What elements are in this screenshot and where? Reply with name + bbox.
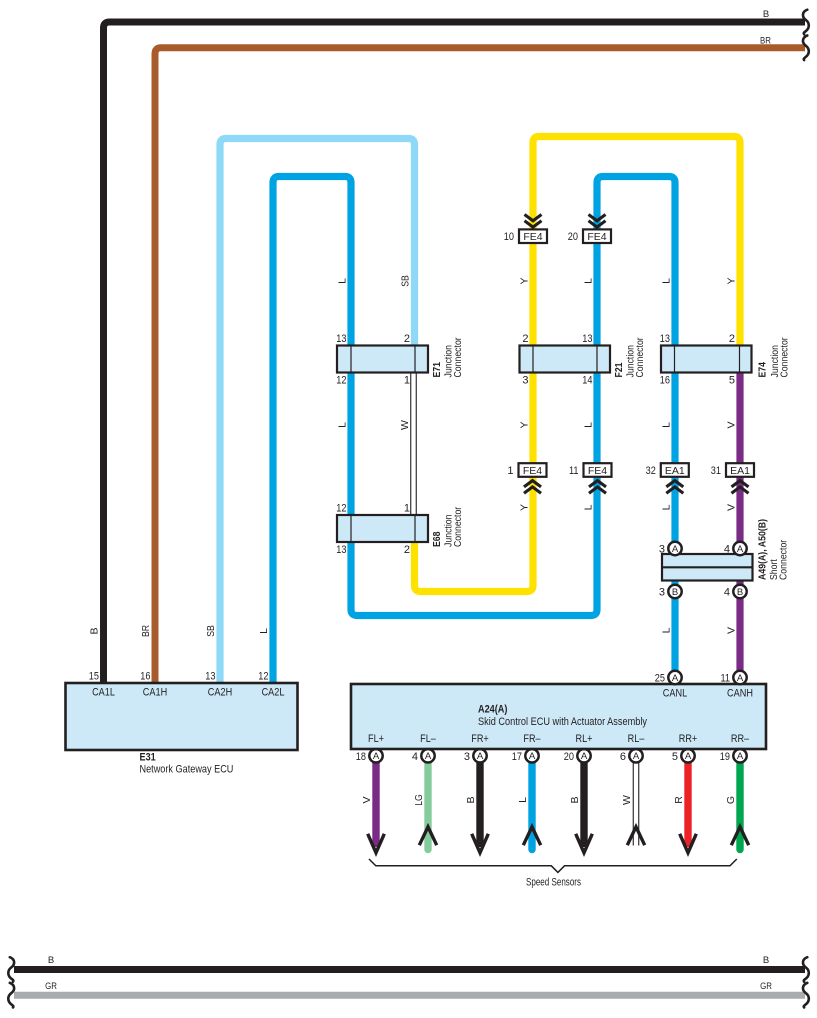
wire Y yellow: F21 pin 2 up, right, down to E74 pin 2 (533, 137, 740, 350)
connector EA1 pin 32 (661, 463, 689, 477)
svg-text:10: 10 (504, 231, 514, 243)
svg-text:2: 2 (404, 333, 410, 345)
svg-text:3: 3 (464, 751, 470, 763)
svg-text:L: L (583, 278, 595, 284)
wire L blue: E31 pin 12 up, right, down to E71 pin 13 (273, 177, 351, 684)
A24 pin 20 RL+ sensor wire B (564, 733, 593, 853)
svg-text:W: W (399, 420, 411, 430)
svg-text:A: A (633, 751, 640, 762)
svg-text:Y: Y (519, 504, 531, 511)
svg-text:CA2L: CA2L (262, 687, 285, 699)
svg-text:B: B (48, 955, 54, 966)
A24 pin 6 RL– sensor wire W (620, 733, 645, 846)
svg-text:16: 16 (660, 375, 670, 387)
break symbol on wire BR top right (803, 36, 809, 61)
svg-text:CANH: CANH (727, 688, 753, 700)
connector arrow into EA1 pin 32 (666, 481, 683, 494)
svg-text:A: A (737, 673, 744, 684)
connector arrow into FE4 pin 11 (589, 481, 606, 494)
svg-text:1: 1 (404, 503, 410, 515)
A24 pin 11 CANH circle (721, 671, 747, 685)
svg-text:W: W (621, 795, 633, 805)
svg-text:A: A (672, 544, 679, 555)
svg-text:12: 12 (258, 671, 268, 683)
svg-text:2: 2 (729, 333, 735, 345)
svg-text:14: 14 (582, 375, 592, 387)
svg-text:L: L (517, 797, 529, 803)
svg-text:31: 31 (711, 465, 721, 477)
A24 pin 19 RR– sensor wire G (720, 733, 750, 850)
svg-text:V: V (726, 627, 738, 634)
break symbol bottom rail GR left (8, 983, 14, 1008)
svg-text:LG: LG (413, 794, 425, 806)
svg-text:Speed Sensors: Speed Sensors (526, 877, 581, 889)
svg-text:Y: Y (726, 277, 738, 284)
svg-text:3: 3 (659, 544, 665, 556)
svg-text:32: 32 (646, 465, 656, 477)
wire B black: E31 pin 15 up and right to break (104, 22, 806, 683)
svg-text:L: L (337, 422, 349, 428)
svg-text:25: 25 (655, 673, 665, 685)
wire W white: E71 pin 1 down to E68 pin 1 (410, 372, 417, 516)
svg-text:Y: Y (519, 277, 531, 284)
connector FE4 pin 10 (519, 229, 547, 243)
svg-text:A: A (737, 751, 744, 762)
connector arrow into FE4 pin 20 (589, 215, 606, 228)
svg-text:E31: E31 (140, 752, 156, 764)
svg-text:B: B (737, 587, 743, 598)
A24 pin 17 FR– sensor wire L (512, 733, 542, 850)
svg-text:BR: BR (140, 625, 152, 637)
svg-text:A49(A), A50(B): A49(A), A50(B) (757, 519, 769, 580)
ECU A24(A) Skid Control ECU with Actuator Assembly (351, 684, 766, 749)
svg-text:A: A (425, 751, 432, 762)
svg-text:11: 11 (569, 465, 579, 477)
wire BR brown: E31 pin 16 up and right to break (155, 48, 805, 683)
svg-text:FR+: FR+ (471, 733, 489, 745)
svg-text:16: 16 (140, 671, 150, 683)
svg-text:A: A (685, 751, 692, 762)
A24 pin 25 CANL circle (655, 671, 682, 685)
svg-text:FR–: FR– (523, 733, 541, 745)
svg-text:BR: BR (760, 36, 771, 47)
svg-text:5: 5 (729, 375, 735, 387)
svg-text:B: B (763, 9, 769, 20)
svg-text:CA1H: CA1H (143, 687, 167, 699)
wire B black bottom rail (14, 966, 805, 973)
svg-text:12: 12 (336, 503, 346, 515)
svg-text:Connector: Connector (452, 337, 464, 378)
svg-text:13: 13 (205, 671, 215, 683)
svg-text:GR: GR (45, 981, 57, 992)
svg-text:1: 1 (404, 375, 410, 387)
svg-text:CANL: CANL (663, 688, 687, 700)
svg-text:Connector: Connector (778, 539, 790, 580)
svg-text:5: 5 (672, 751, 678, 763)
svg-text:RR+: RR+ (679, 733, 698, 745)
wire L blue: F21 pin 13 up, right, down to E74 pin 13 (597, 177, 675, 350)
wire GR gray bottom rail (14, 992, 805, 999)
svg-text:15: 15 (89, 671, 99, 683)
connector FE4 pin 11 (584, 463, 612, 477)
svg-text:FE4: FE4 (588, 465, 607, 477)
svg-text:A: A (373, 751, 380, 762)
svg-text:13: 13 (336, 333, 346, 345)
svg-text:R: R (673, 796, 685, 804)
svg-text:EA1: EA1 (665, 465, 685, 477)
wire V violet: E74 pin 5 down through short connector to A24 CANH pin 11 (736, 370, 743, 678)
svg-text:FE4: FE4 (587, 231, 606, 243)
svg-text:SB: SB (205, 625, 217, 637)
A24 pin 18 FL+ sensor wire V (356, 733, 385, 853)
svg-text:RR–: RR– (731, 733, 750, 745)
svg-text:17: 17 (512, 751, 522, 763)
svg-text:4: 4 (724, 587, 730, 599)
svg-text:1: 1 (507, 465, 513, 477)
svg-text:B: B (763, 955, 769, 966)
svg-text:3: 3 (522, 375, 528, 387)
pin 4 B circle on short connector bottom right (724, 585, 747, 599)
connector EA1 pin 31 (726, 463, 754, 477)
svg-text:6: 6 (620, 751, 626, 763)
svg-text:V: V (726, 421, 738, 428)
break symbol on wire B top right (803, 10, 809, 35)
pin 3 B circle on short connector bottom left (659, 585, 682, 599)
svg-text:13: 13 (660, 333, 670, 345)
svg-text:4: 4 (412, 751, 418, 763)
svg-text:GR: GR (760, 981, 772, 992)
ECU E31 Network Gateway ECU (66, 671, 298, 776)
svg-text:2: 2 (522, 333, 528, 345)
svg-text:A: A (672, 673, 679, 684)
svg-text:B: B (569, 796, 581, 803)
svg-text:19: 19 (720, 751, 730, 763)
svg-text:EA1: EA1 (730, 465, 750, 477)
svg-text:18: 18 (356, 751, 366, 763)
pin 3 A circle on short connector top left (659, 542, 682, 556)
svg-text:13: 13 (582, 333, 592, 345)
connector FE4 pin 20 (583, 229, 611, 243)
svg-text:L: L (337, 278, 349, 284)
svg-text:SB: SB (400, 275, 412, 287)
wire SB skyblue: E31 pin 13 up, right, down to E71 pin 2 (220, 139, 415, 684)
svg-text:L: L (661, 278, 673, 284)
break symbol bottom rail B right (803, 957, 809, 982)
svg-text:A: A (581, 751, 588, 762)
svg-text:V: V (726, 504, 738, 511)
svg-text:L: L (583, 504, 595, 510)
svg-text:CA2H: CA2H (208, 687, 232, 699)
short connector A49(A), A50(B) (662, 519, 790, 581)
svg-text:FL–: FL– (420, 733, 436, 745)
svg-text:Network Gateway ECU: Network Gateway ECU (140, 764, 234, 776)
junction connector E71 (336, 333, 464, 387)
svg-text:4: 4 (724, 544, 730, 556)
svg-text:L: L (258, 628, 270, 634)
junction connector E74 (660, 333, 791, 387)
svg-text:20: 20 (568, 231, 578, 243)
svg-text:V: V (361, 796, 373, 803)
svg-text:FE4: FE4 (523, 231, 542, 243)
svg-text:A: A (529, 751, 536, 762)
svg-text:13: 13 (336, 544, 346, 556)
svg-text:FE4: FE4 (523, 465, 542, 477)
A24 pin 4 FL– sensor wire LG (412, 733, 437, 850)
A24 pin 3 FR+ sensor wire B (464, 733, 489, 853)
svg-text:A24(A): A24(A) (478, 704, 508, 716)
wire L blue: E74 pin 16 down through short connector to A24 CANL pin 25 (671, 370, 678, 678)
break symbol bottom rail B left (8, 957, 14, 982)
A24 pin 5 RR+ sensor wire R (672, 733, 697, 853)
svg-text:A: A (737, 544, 744, 555)
svg-text:F21: F21 (613, 362, 625, 377)
connector FE4 pin 1 (519, 463, 547, 477)
speed sensors brace (369, 859, 737, 872)
svg-text:A: A (477, 751, 484, 762)
svg-text:12: 12 (336, 375, 346, 387)
svg-text:RL–: RL– (628, 733, 645, 745)
svg-text:L: L (583, 422, 595, 428)
svg-text:Connector: Connector (779, 337, 791, 378)
wire Y yellow: F21 pin 3 down, left, up to E68 pin 2 (415, 370, 534, 592)
svg-text:20: 20 (564, 751, 574, 763)
connector arrow into FE4 pin 1 (524, 481, 541, 494)
svg-text:B: B (465, 796, 477, 803)
svg-text:E68: E68 (431, 531, 443, 547)
junction connector E68 (336, 503, 464, 557)
svg-text:Connector: Connector (634, 337, 646, 378)
svg-text:L: L (661, 627, 673, 633)
svg-text:2: 2 (404, 544, 410, 556)
svg-text:G: G (725, 796, 737, 804)
wire L blue: E71 pin 12 down through E68 then right and up to F21 pin 14 (351, 370, 597, 616)
svg-text:RL+: RL+ (576, 733, 593, 745)
break symbol bottom rail GR right (803, 983, 809, 1008)
connector arrow into EA1 pin 31 (732, 481, 749, 494)
svg-text:CA1L: CA1L (92, 687, 115, 699)
svg-text:L: L (661, 504, 673, 510)
connector arrow into FE4 pin 10 (525, 215, 542, 228)
svg-text:L: L (661, 422, 673, 428)
svg-text:Skid Control ECU with Actuator: Skid Control ECU with Actuator Assembly (478, 716, 647, 728)
svg-text:E74: E74 (757, 362, 769, 378)
svg-text:FL+: FL+ (368, 733, 384, 745)
svg-text:E71: E71 (431, 362, 443, 378)
pin 4 A circle on short connector top right (724, 542, 747, 556)
svg-text:B: B (672, 587, 678, 598)
junction connector F21 (520, 333, 647, 387)
svg-text:Y: Y (519, 421, 531, 428)
svg-text:11: 11 (721, 673, 731, 685)
svg-text:3: 3 (659, 587, 665, 599)
svg-text:Connector: Connector (452, 506, 464, 547)
svg-text:B: B (89, 627, 101, 634)
